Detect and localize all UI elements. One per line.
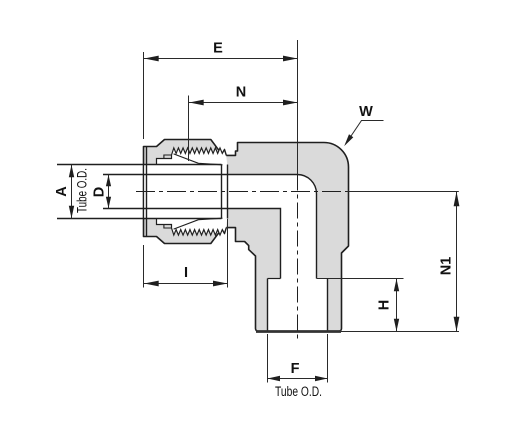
back ferrule step top <box>164 155 172 159</box>
svg-text:A: A <box>54 186 70 197</box>
front ferrule taper top <box>174 154 223 165</box>
tube outer wall top <box>57 164 222 166</box>
dimension N1 <box>456 192 458 332</box>
dim E extension right / port axis <box>297 40 299 175</box>
elbow bore (white) <box>228 174 328 331</box>
thread zigzag top <box>172 148 227 156</box>
socket shoulder left <box>268 278 281 280</box>
svg-text:E: E <box>213 41 223 57</box>
nut pocket steps bottom <box>157 219 172 228</box>
svg-text:Tube O.D.: Tube O.D. <box>275 384 322 399</box>
label W leader <box>346 121 384 144</box>
dim F extensions <box>267 334 269 383</box>
socket shoulder right + H reference <box>317 278 404 280</box>
vertical port centerline <box>297 175 299 343</box>
bottom face socket opening (thick) <box>256 330 341 333</box>
dim E extension left <box>143 52 145 139</box>
back ferrule step bottom <box>164 225 172 229</box>
dimension H <box>396 279 398 332</box>
dimension D <box>108 175 110 209</box>
socket right wall <box>327 279 329 332</box>
svg-text:W: W <box>359 104 373 120</box>
svg-text:D: D <box>92 187 108 197</box>
tube end face <box>221 165 223 219</box>
body tube stop shoulder <box>227 165 229 219</box>
svg-text:Tube O.D.: Tube O.D. <box>75 168 90 213</box>
svg-text:H: H <box>377 300 393 310</box>
ferrule pocket top <box>157 148 228 165</box>
svg-text:I: I <box>184 265 188 281</box>
tube cavity in nut (white) <box>144 165 227 219</box>
svg-text:N1: N1 <box>439 257 455 276</box>
socket left wall <box>267 279 269 332</box>
nut left face inner line <box>146 147 148 237</box>
centerline extension to N1 <box>347 191 459 193</box>
svg-text:N: N <box>236 85 246 101</box>
dimension E <box>144 58 298 60</box>
nut pocket steps top <box>157 155 172 164</box>
dim N extension left <box>188 96 190 162</box>
front ferrule taper bottom <box>174 218 223 229</box>
bore line top <box>103 174 317 278</box>
dimension A <box>71 165 73 219</box>
dim I extensions <box>143 245 145 288</box>
horizontal centerline <box>136 191 347 193</box>
dimension I <box>144 283 228 285</box>
fitting body and nut cross-section <box>144 140 349 332</box>
bottom face reference to N1 <box>341 331 459 333</box>
svg-text:F: F <box>291 361 300 377</box>
ferrule pocket bottom <box>157 219 228 236</box>
dimension F <box>268 378 328 380</box>
dimension N <box>189 102 298 104</box>
bore line bottom <box>103 209 281 279</box>
tube outer wall bottom <box>57 218 222 220</box>
thread zigzag bottom <box>172 228 227 236</box>
